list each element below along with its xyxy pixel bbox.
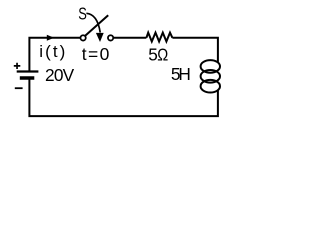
current direction arrow on top wire bbox=[47, 35, 54, 41]
switch blade (open, tilted up) bbox=[85, 15, 108, 36]
battery plus sign bbox=[14, 63, 20, 69]
wire: resistor to top-right corner bbox=[172, 38, 218, 63]
wire: switch right terminal to resistor bbox=[113, 37, 146, 39]
resistor R 5ohm zigzag bbox=[146, 33, 172, 42]
battery V1 long top plate (+) bbox=[17, 70, 39, 72]
battery V1 short thick bottom plate (-) bbox=[20, 76, 35, 80]
switch S left terminal bbox=[80, 35, 85, 40]
wire: inductor bottom, bottom side, up to battery negative bbox=[29, 79, 218, 117]
switch arc arrowhead bbox=[96, 33, 104, 42]
svg-text:S: S bbox=[78, 4, 87, 24]
svg-text:t=0: t=0 bbox=[82, 44, 110, 64]
switch closing motion arc bbox=[86, 13, 100, 32]
svg-text:5H: 5H bbox=[171, 64, 191, 84]
switch S right terminal bbox=[108, 35, 113, 40]
wire: battery positive up left side and top to switch left terminal bbox=[29, 38, 80, 71]
inductor L coil loop 1 bbox=[201, 60, 220, 73]
inductor L coil loop 2 bbox=[201, 70, 220, 83]
svg-text:i(t): i(t) bbox=[39, 42, 65, 61]
svg-text:20V: 20V bbox=[45, 65, 75, 85]
inductor L coil loop 3 bbox=[201, 80, 220, 93]
svg-text:Ω: Ω bbox=[157, 45, 168, 65]
battery minus sign bbox=[15, 87, 23, 89]
